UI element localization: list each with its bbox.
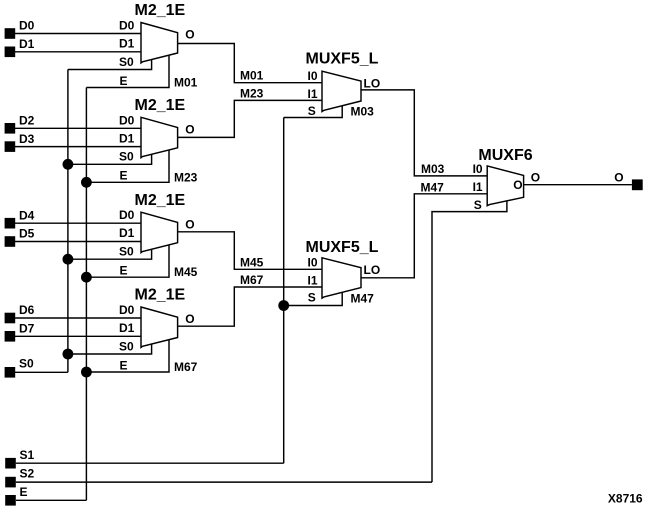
wire E to U4.E: [86, 340, 169, 372]
input terminal D2: [5, 123, 16, 134]
input terminal E: [5, 495, 16, 506]
svg-text:M23: M23: [174, 170, 198, 184]
svg-text:S: S: [308, 104, 316, 118]
svg-text:D3: D3: [19, 132, 35, 146]
input terminal D6: [5, 313, 16, 324]
svg-text:I0: I0: [473, 162, 483, 176]
wire D0 to U1: [15, 33, 141, 35]
svg-text:MUXF6: MUXF6: [478, 147, 532, 164]
svg-text:D5: D5: [19, 227, 35, 241]
svg-text:D0: D0: [119, 19, 135, 33]
svg-text:O: O: [531, 170, 540, 184]
wire D6 to U4: [15, 317, 141, 319]
input terminal S2: [5, 477, 16, 488]
mux U7 MUXF6 body: [487, 166, 523, 206]
svg-text:O: O: [513, 178, 522, 192]
svg-text:D0: D0: [119, 208, 135, 222]
svg-text:D6: D6: [19, 303, 35, 317]
svg-text:S2: S2: [20, 467, 35, 481]
junction E/U4: [81, 367, 92, 378]
wire S0 to U1.S0: [68, 60, 152, 70]
wire S1 vertical trunk: [283, 118, 285, 464]
wire net M47 (U6.LO to MUXF6.I1): [361, 194, 487, 278]
input terminal D3: [5, 141, 16, 152]
svg-text:M2_1E: M2_1E: [135, 97, 186, 114]
wire S1 terminal to S1 trunk: [16, 462, 284, 464]
input terminal S1: [5, 458, 16, 469]
wire D3 to U2: [15, 146, 141, 148]
svg-text:MUXF5_L: MUXF5_L: [306, 50, 379, 67]
wire net M45 (U3.O to MUXF5): [178, 232, 322, 269]
wire E to U2.E: [86, 150, 169, 182]
svg-text:D2: D2: [19, 114, 35, 128]
svg-text:D1: D1: [119, 321, 135, 335]
svg-text:E: E: [120, 169, 128, 183]
input terminal D4: [5, 218, 16, 229]
junction E/U3: [81, 272, 92, 283]
wire S1 to U6.S: [284, 292, 343, 305]
wire S1 to U5.S: [284, 106, 343, 118]
wire D4 to U3: [15, 222, 141, 224]
svg-text:X8716: X8716: [608, 492, 643, 506]
svg-text:M47: M47: [351, 291, 375, 305]
wire net M03 (U5.LO to MUXF6.I0): [361, 90, 487, 176]
wire S2 terminal to U7.S net: [16, 481, 432, 483]
svg-text:O: O: [185, 28, 194, 42]
svg-text:E: E: [120, 358, 128, 372]
svg-text:M45: M45: [174, 265, 198, 279]
svg-text:M01: M01: [240, 69, 264, 83]
svg-text:LO: LO: [364, 263, 381, 277]
svg-text:O: O: [185, 217, 194, 231]
svg-text:I1: I1: [308, 274, 318, 288]
wire E to U1.E: [86, 55, 169, 87]
svg-text:D0: D0: [119, 113, 135, 127]
svg-text:E: E: [20, 485, 28, 499]
svg-text:M2_1E: M2_1E: [135, 287, 186, 304]
junction S0/U4: [63, 349, 74, 360]
wire D1 to U1: [15, 51, 141, 53]
svg-text:S1: S1: [20, 448, 35, 462]
junction S0/U2: [63, 159, 74, 170]
svg-text:M2_1E: M2_1E: [135, 2, 186, 19]
svg-text:O: O: [614, 170, 623, 184]
svg-text:O: O: [185, 312, 194, 326]
svg-text:D0: D0: [119, 303, 135, 317]
svg-text:M45: M45: [240, 255, 264, 269]
junction E/U2: [81, 177, 92, 188]
svg-text:E: E: [120, 264, 128, 278]
wire E terminal to E trunk: [16, 499, 86, 501]
svg-text:M67: M67: [240, 273, 264, 287]
svg-text:E: E: [120, 74, 128, 88]
wire S2 to U7.S: [432, 201, 507, 482]
wire S0 to U2.S0: [68, 154, 152, 164]
svg-text:M03: M03: [351, 105, 375, 119]
wire S0 terminal to S0 trunk: [15, 371, 68, 373]
svg-text:O: O: [185, 122, 194, 136]
wire S0 to U4.S0: [68, 344, 152, 354]
svg-text:S: S: [474, 198, 482, 212]
junction S0/U3: [63, 254, 74, 265]
svg-text:MUXF5_L: MUXF5_L: [306, 239, 379, 256]
wire S0 to U3.S0: [68, 249, 152, 259]
svg-text:S0: S0: [119, 55, 134, 69]
wire net O (U7.O to terminal): [524, 184, 632, 186]
input terminal D1: [5, 47, 16, 58]
wire E vertical trunk: [85, 88, 87, 501]
svg-text:D4: D4: [19, 208, 35, 222]
mux U2 M2_1E body: [141, 117, 178, 157]
svg-text:M01: M01: [174, 76, 198, 90]
svg-text:D1: D1: [119, 131, 135, 145]
wire net M67 (U4.O to MUXF5): [178, 287, 322, 326]
wire D5 to U3: [15, 241, 141, 243]
input terminal D0: [5, 28, 16, 39]
svg-text:I1: I1: [473, 180, 483, 194]
mux U6 MUXF5_L body: [322, 258, 361, 298]
output terminal O: [632, 179, 643, 190]
wire E to U3.E: [86, 245, 169, 277]
svg-text:S0: S0: [119, 150, 134, 164]
svg-text:LO: LO: [364, 76, 381, 90]
input terminal S0: [5, 367, 16, 378]
svg-text:M03: M03: [421, 162, 445, 176]
svg-text:M47: M47: [421, 180, 445, 194]
svg-text:M23: M23: [240, 86, 264, 100]
mux U5 MUXF5_L body: [322, 71, 361, 111]
svg-text:I1: I1: [308, 87, 318, 101]
mux U4 M2_1E body: [141, 307, 178, 347]
svg-text:D7: D7: [19, 322, 35, 336]
input terminal D7: [5, 331, 16, 342]
svg-text:D0: D0: [19, 19, 35, 33]
wire S0 vertical trunk: [67, 70, 69, 373]
input terminal D5: [5, 236, 16, 247]
svg-text:D1: D1: [19, 37, 35, 51]
wire net M23 (U2.O to MUXF5): [178, 100, 322, 137]
svg-text:S: S: [308, 290, 316, 304]
mux U1 M2_1E body: [141, 23, 178, 63]
wire D7 to U4: [15, 335, 141, 337]
junction S1/U6.S: [278, 300, 289, 311]
svg-text:D1: D1: [119, 226, 135, 240]
svg-text:D1: D1: [119, 37, 135, 51]
svg-text:M2_1E: M2_1E: [135, 192, 186, 209]
svg-text:S0: S0: [19, 357, 34, 371]
svg-text:S0: S0: [119, 339, 134, 353]
wire D2 to U2: [15, 127, 141, 129]
mux U3 M2_1E body: [141, 212, 178, 252]
svg-text:M67: M67: [174, 360, 198, 374]
wire net M01 (U1.O to MUXF5): [178, 44, 322, 83]
svg-text:I0: I0: [308, 255, 318, 269]
svg-text:I0: I0: [308, 69, 318, 83]
svg-text:S0: S0: [119, 245, 134, 259]
